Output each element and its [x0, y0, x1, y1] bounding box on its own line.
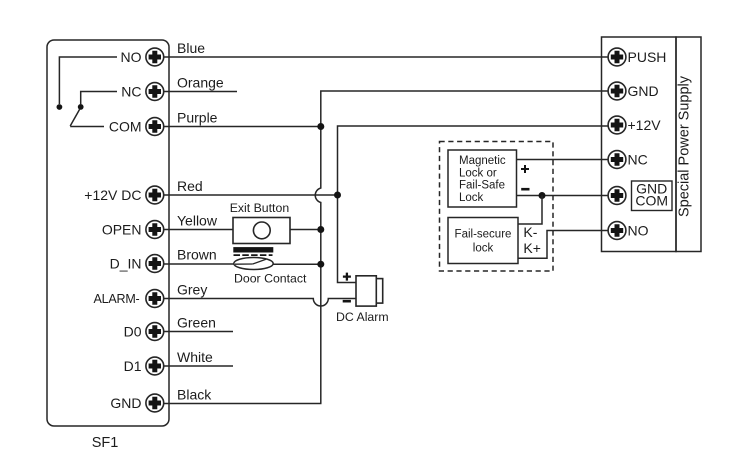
- terminal ALARM- (SF1): [93, 290, 163, 308]
- wire K+ to NO: [518, 231, 608, 259]
- magnetic lock plus sign: [521, 165, 529, 173]
- svg-text:Red: Red: [177, 178, 203, 194]
- wire Purple COM to GND net: [164, 110, 321, 127]
- fail-secure lock text: [455, 228, 512, 254]
- svg-text:SF1: SF1: [92, 435, 119, 451]
- terminal NO (power supply): [608, 222, 649, 240]
- svg-text:Black: Black: [177, 387, 212, 403]
- svg-text:Brown: Brown: [177, 247, 217, 263]
- wire exit button to GND net: [290, 229, 321, 231]
- svg-text:Door Contact: Door Contact: [234, 272, 307, 286]
- DC alarm minus sign: [343, 300, 351, 303]
- terminal D0 (SF1): [124, 323, 164, 341]
- DC alarm plus sign: [343, 273, 351, 281]
- wire Yellow OPEN to exit button: [164, 213, 233, 230]
- svg-text:NC: NC: [121, 84, 141, 100]
- wire Red +12V DC to +12V net: [164, 178, 338, 195]
- svg-text:ALARM-: ALARM-: [93, 292, 139, 306]
- terminal GND (power supply): [608, 82, 659, 100]
- svg-text:GND: GND: [110, 395, 141, 411]
- svg-text:D_IN: D_IN: [110, 256, 142, 272]
- wire magnetic lock minus to GND/COM: [517, 195, 609, 197]
- wire Grey ALARM- to DC alarm minus with hop: [164, 282, 356, 307]
- node purple junction: [317, 123, 324, 130]
- svg-text:K-: K-: [523, 224, 537, 240]
- terminal NC (SF1): [121, 83, 163, 101]
- relay contacts inside SF1: [57, 57, 118, 127]
- exit button: [230, 201, 290, 244]
- access controller SF1 box: [47, 40, 169, 426]
- svg-text:PUSH: PUSH: [628, 49, 667, 65]
- svg-text:D1: D1: [124, 358, 142, 374]
- wire +12V vertical net: [338, 126, 609, 283]
- power supply terminal box: [602, 37, 677, 252]
- wire K- to minus junction: [518, 196, 542, 225]
- svg-text:Lock or: Lock or: [459, 167, 497, 179]
- svg-text:Grey: Grey: [177, 282, 207, 298]
- terminal OPEN (SF1): [102, 221, 164, 239]
- node NC contact: [78, 104, 84, 110]
- node NO contact: [57, 104, 63, 110]
- wire door contact to GND net: [273, 263, 321, 265]
- node exit button junction: [317, 226, 324, 233]
- svg-text:GND: GND: [628, 83, 659, 99]
- wire COM stub: [70, 126, 104, 128]
- wire NC leg: [81, 92, 117, 105]
- wire GND vertical net with hop over red: [315, 91, 608, 404]
- terminal NO (SF1): [121, 48, 164, 66]
- svg-text:Fail-Safe: Fail-Safe: [459, 180, 505, 192]
- wire NO leg: [59, 57, 117, 104]
- svg-text:Blue: Blue: [177, 40, 205, 56]
- terminal GND (SF1): [110, 394, 163, 412]
- terminal NC (power supply): [608, 151, 648, 169]
- terminal GND/COM (power supply): [608, 181, 672, 211]
- terminal +12V DC (SF1): [84, 186, 163, 204]
- svg-text:D0: D0: [124, 324, 142, 340]
- magnetic lock box: [448, 150, 517, 207]
- lock area dashed box: [440, 142, 554, 272]
- svg-text:Yellow: Yellow: [177, 213, 218, 229]
- svg-text:NO: NO: [121, 49, 142, 65]
- svg-text:Orange: Orange: [177, 75, 224, 91]
- svg-text:Special Power Supply: Special Power Supply: [677, 75, 693, 217]
- magnetic lock minus sign: [521, 188, 529, 191]
- svg-text:Fail-secure: Fail-secure: [455, 228, 512, 240]
- svg-text:Lock: Lock: [459, 192, 484, 204]
- terminal PUSH (power supply): [608, 48, 666, 66]
- svg-text:Exit Button: Exit Button: [230, 201, 290, 215]
- terminal D1 (SF1): [124, 357, 164, 375]
- power supply outer box: [676, 37, 701, 252]
- svg-text:Purple: Purple: [177, 110, 218, 126]
- svg-text:lock: lock: [473, 242, 494, 254]
- svg-text:DC Alarm: DC Alarm: [336, 310, 389, 324]
- wire Black GND to GND net: [164, 387, 322, 404]
- node door contact junction: [317, 261, 324, 268]
- svg-text:COM: COM: [109, 119, 142, 135]
- wire magnetic lock plus to NC: [517, 159, 609, 161]
- door contact: [233, 247, 307, 285]
- svg-text:NO: NO: [628, 223, 649, 239]
- fail-secure lock box: [448, 218, 518, 264]
- svg-text:OPEN: OPEN: [102, 222, 142, 238]
- svg-text:Green: Green: [177, 315, 216, 331]
- svg-text:K+: K+: [523, 240, 541, 256]
- terminal +12V (power supply): [608, 116, 661, 134]
- wire Orange NC stub: [164, 75, 237, 92]
- wire Blue NO to PUSH: [164, 40, 608, 57]
- DC alarm: [336, 273, 389, 324]
- wire Green D0 stub: [164, 315, 233, 332]
- relay lever arm: [70, 109, 80, 126]
- terminal COM (SF1): [109, 118, 164, 136]
- node lock minus junction: [539, 192, 546, 199]
- svg-text:White: White: [177, 349, 213, 365]
- svg-text:COM: COM: [635, 193, 668, 209]
- terminal D_IN (SF1): [110, 255, 164, 273]
- svg-text:Magnetic: Magnetic: [459, 155, 506, 167]
- svg-text:+12V DC: +12V DC: [84, 187, 141, 203]
- svg-text:NC: NC: [628, 152, 648, 168]
- wire Brown D_IN to door contact: [164, 247, 234, 265]
- node red junction: [334, 192, 341, 199]
- magnetic lock text: [459, 155, 506, 204]
- wire White D1 stub: [164, 349, 233, 366]
- svg-text:+12V: +12V: [628, 117, 662, 133]
